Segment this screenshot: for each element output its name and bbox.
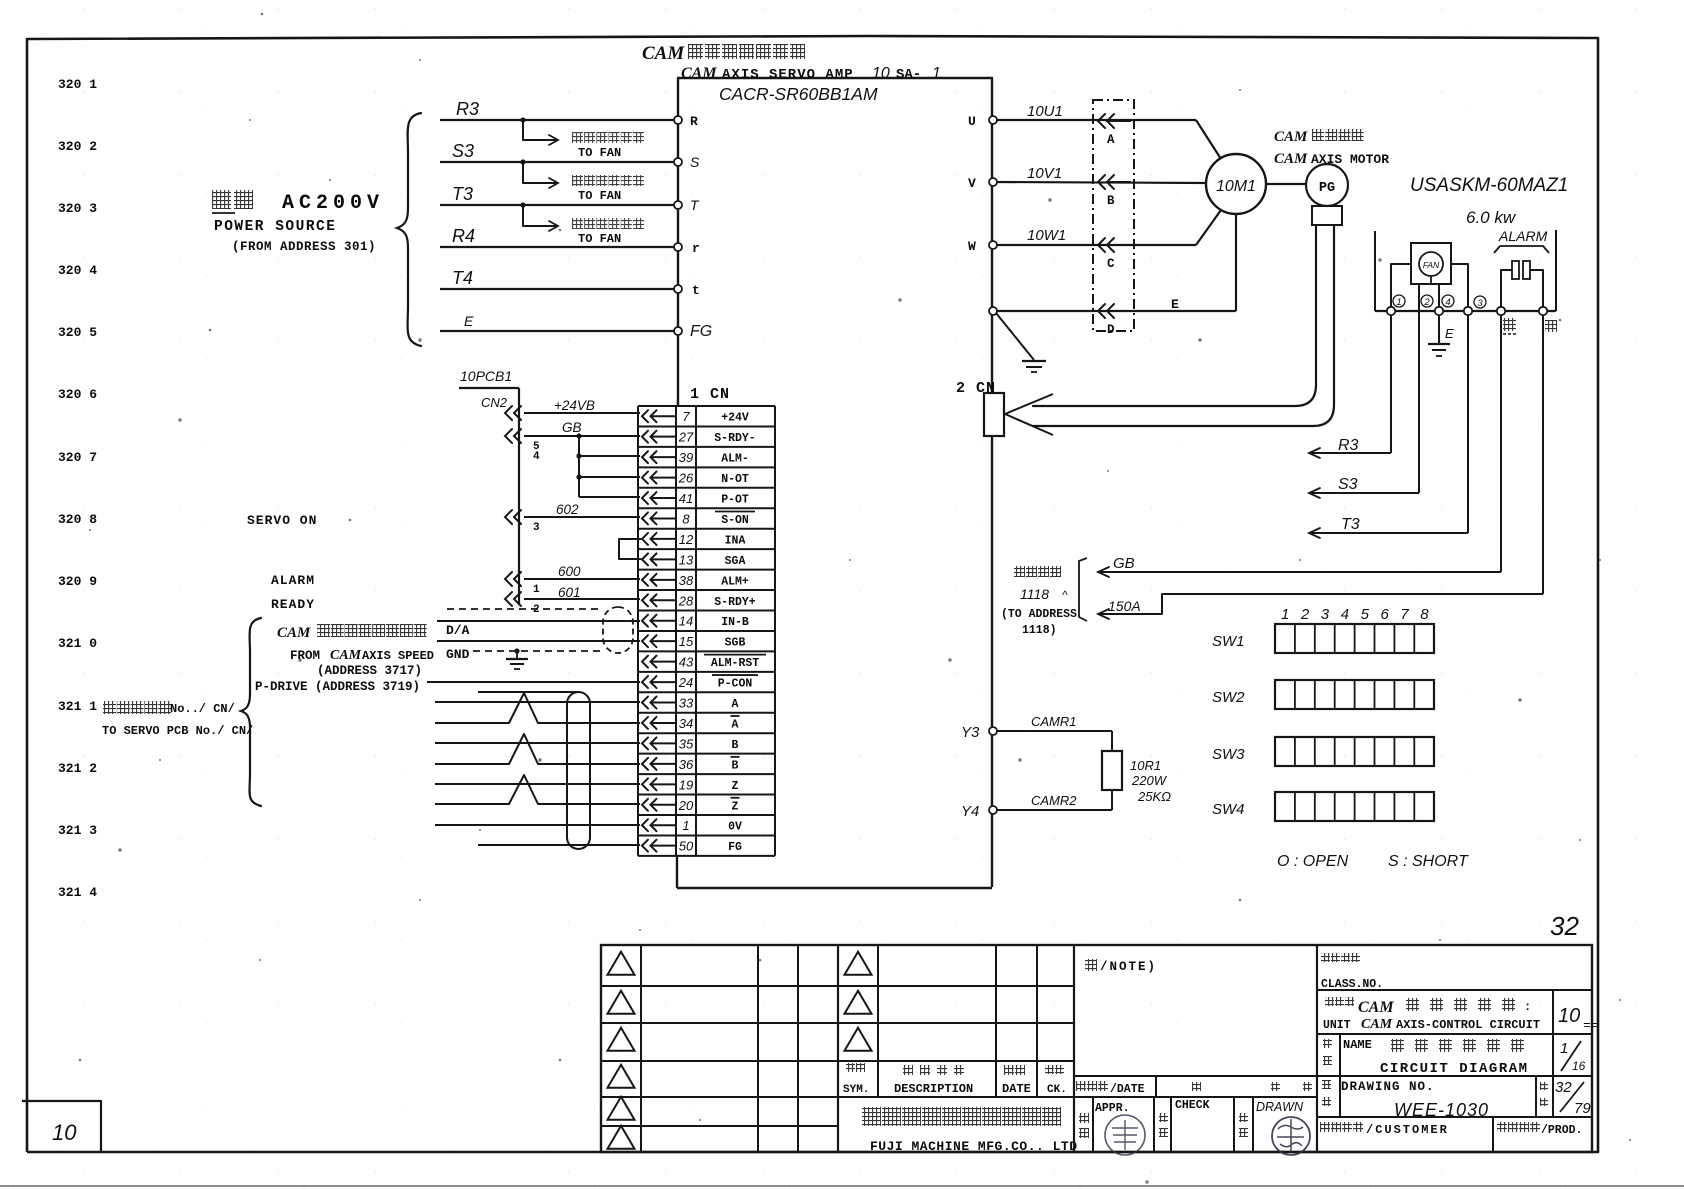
svg-text:+24V: +24V bbox=[721, 412, 749, 425]
wire SGB bbox=[437, 640, 640, 642]
svg-text:CIRCUIT DIAGRAM: CIRCUIT DIAGRAM bbox=[1380, 1061, 1529, 1077]
svg-text:DRAWING NO.: DRAWING NO. bbox=[1341, 1080, 1435, 1094]
svg-text:A: A bbox=[1107, 133, 1115, 147]
svg-text:10R1: 10R1 bbox=[1130, 758, 1161, 773]
svg-text:7: 7 bbox=[682, 409, 690, 424]
svg-text:1: 1 bbox=[1281, 606, 1289, 623]
svg-text:E: E bbox=[1445, 326, 1454, 341]
svg-text:25KΩ: 25KΩ bbox=[1137, 789, 1171, 804]
svg-text:Z: Z bbox=[732, 780, 739, 793]
svg-text:GB: GB bbox=[1113, 555, 1135, 572]
svg-text:/PROD.: /PROD. bbox=[1541, 1124, 1582, 1137]
wire shield dashed bbox=[447, 608, 600, 610]
1CN pin 50 FG bbox=[642, 840, 648, 852]
svg-text:6: 6 bbox=[1381, 606, 1390, 623]
svg-text:13: 13 bbox=[679, 552, 694, 567]
1CN pin 12 INA bbox=[642, 533, 648, 545]
svg-text:10: 10 bbox=[52, 1120, 77, 1145]
svg-text:34: 34 bbox=[679, 716, 693, 731]
svg-text:CK.: CK. bbox=[1047, 1084, 1067, 1096]
svg-text:CAM: CAM bbox=[681, 65, 717, 82]
svg-text:35: 35 bbox=[679, 736, 694, 751]
alarm contact bbox=[1501, 270, 1512, 307]
wire FG bbox=[478, 844, 640, 846]
svg-text:Y3: Y3 bbox=[961, 724, 980, 741]
bracket address 1118 bbox=[1079, 558, 1087, 621]
wire R4 to servo amp bbox=[440, 246, 676, 248]
junction dot bbox=[520, 202, 525, 207]
1CN pin 8 S-ON bbox=[642, 512, 648, 524]
svg-text:320 8: 320 8 bbox=[58, 512, 97, 527]
terminal FG bbox=[674, 327, 682, 335]
svg-text:10U1: 10U1 bbox=[1027, 103, 1063, 120]
svg-text:10PCB1: 10PCB1 bbox=[460, 368, 512, 384]
terminal circle bbox=[1435, 307, 1443, 315]
svg-text:S3: S3 bbox=[1338, 476, 1358, 493]
motor 10M1 bbox=[1206, 154, 1266, 214]
svg-text:43: 43 bbox=[679, 655, 694, 670]
label to address 1118 (japanese) bbox=[1014, 566, 1025, 577]
svg-text:2: 2 bbox=[1300, 606, 1310, 623]
terminal number 4 bbox=[1442, 295, 1454, 307]
wire E to servo amp bbox=[440, 330, 676, 332]
svg-text:S: S bbox=[690, 154, 700, 170]
svg-text:26: 26 bbox=[678, 471, 694, 486]
svg-text:10: 10 bbox=[1558, 1005, 1580, 1027]
svg-text:ALM-RST: ALM-RST bbox=[711, 657, 759, 670]
svg-text:4: 4 bbox=[1341, 606, 1349, 623]
svg-text:TO SERVO PCB No./ CN/: TO SERVO PCB No./ CN/ bbox=[102, 724, 253, 738]
svg-text:SW4: SW4 bbox=[1212, 801, 1245, 818]
wire fan left to terminal 1 bbox=[1391, 264, 1411, 307]
svg-text:320 7: 320 7 bbox=[58, 450, 97, 465]
svg-text:1: 1 bbox=[1560, 1040, 1568, 1057]
1CN pin 7 +24V bbox=[642, 410, 648, 422]
svg-text:28: 28 bbox=[678, 593, 694, 608]
wire S3 to servo amp bbox=[440, 161, 676, 163]
wire 150A return bbox=[1542, 315, 1544, 594]
svg-text:5: 5 bbox=[1361, 606, 1370, 623]
svg-text:INA: INA bbox=[725, 534, 746, 547]
svg-text:t: t bbox=[692, 283, 700, 298]
svg-text:321 0: 321 0 bbox=[58, 636, 97, 651]
svg-text:E: E bbox=[1171, 297, 1179, 312]
drawing no row bbox=[1317, 1116, 1592, 1118]
svg-text:CAM: CAM bbox=[642, 43, 685, 64]
wire U to motor bbox=[997, 119, 1196, 121]
wire fan circle to box bottom bbox=[1430, 276, 1432, 284]
svg-text:32: 32 bbox=[1555, 1079, 1572, 1096]
connector arrow phase D bbox=[1098, 304, 1105, 318]
revision triangle bbox=[845, 1028, 872, 1051]
svg-text:SA-: SA- bbox=[896, 67, 921, 83]
revision table right bbox=[877, 945, 879, 1097]
1CN pin 38 ALM+ bbox=[642, 574, 648, 586]
1CN pin 39 ALM- bbox=[642, 451, 648, 463]
revision triangle bbox=[608, 1097, 635, 1120]
1CN pin 34 A bbox=[642, 717, 648, 729]
svg-text:320 6: 320 6 bbox=[58, 387, 97, 402]
svg-text:320 2: 320 2 bbox=[58, 139, 97, 154]
terminal Y3 bbox=[989, 727, 997, 735]
jumper INA-SGA bbox=[619, 539, 641, 559]
svg-text:DESCRIPTION: DESCRIPTION bbox=[894, 1082, 973, 1096]
svg-text:24: 24 bbox=[678, 675, 693, 690]
svg-text:1: 1 bbox=[682, 818, 689, 833]
svg-text:R: R bbox=[690, 114, 698, 129]
1CN pin 36 B bbox=[642, 758, 648, 770]
1CN pin 15 SGB bbox=[642, 635, 648, 647]
svg-text:AXIS SERVO AMP: AXIS SERVO AMP bbox=[722, 67, 854, 83]
svg-text:DATE: DATE bbox=[1002, 1082, 1031, 1096]
brace servo pcb bbox=[241, 618, 261, 806]
svg-text:321 1: 321 1 bbox=[58, 699, 97, 714]
label power source AC200V bbox=[212, 190, 231, 209]
svg-text:79: 79 bbox=[1574, 1100, 1591, 1117]
svg-text:R3: R3 bbox=[456, 99, 479, 119]
svg-text:USASKM-60MAZ1: USASKM-60MAZ1 bbox=[1410, 175, 1568, 196]
svg-text:1: 1 bbox=[1396, 297, 1401, 308]
wire IN-B bbox=[437, 620, 640, 622]
wire R3 to servo amp bbox=[440, 119, 676, 121]
wire Z bbox=[435, 783, 640, 785]
svg-text:GND: GND bbox=[446, 647, 470, 662]
revision triangle bbox=[608, 1126, 635, 1149]
svg-text:CAM: CAM bbox=[277, 625, 311, 641]
1CN pin 20 Z bbox=[642, 799, 648, 811]
revision header CK bbox=[1045, 1065, 1054, 1074]
svg-text:320 4: 320 4 bbox=[58, 263, 97, 278]
stamp CHECK bbox=[1159, 1113, 1168, 1122]
1CN pin 41 P-OT bbox=[642, 492, 648, 504]
svg-text:S-RDY+: S-RDY+ bbox=[714, 596, 756, 609]
svg-text:27: 27 bbox=[678, 430, 694, 445]
wire +24VB CN2 to 1CN bbox=[524, 412, 640, 414]
revision header DESCRIPTION bbox=[903, 1065, 913, 1075]
svg-text:CAM: CAM bbox=[1274, 129, 1308, 145]
wire B-bar twisted bbox=[435, 734, 640, 764]
svg-text:2: 2 bbox=[1423, 297, 1430, 308]
svg-text:CAM: CAM bbox=[1358, 999, 1394, 1016]
1CN pin 14 IN-B bbox=[642, 615, 648, 627]
wire 602 CN2 to 1CN bbox=[524, 516, 640, 518]
svg-text:320 5: 320 5 bbox=[58, 325, 97, 340]
svg-text:UNIT: UNIT bbox=[1323, 1019, 1351, 1032]
svg-text:N-OT: N-OT bbox=[721, 473, 749, 486]
revision triangle bbox=[608, 1028, 635, 1051]
sheet 1/16 bbox=[1561, 1041, 1581, 1071]
ground symbol servo amp bbox=[996, 313, 1034, 360]
label fan motor (katakana) bbox=[572, 175, 583, 186]
label black wire (kanji) bbox=[1503, 318, 1516, 331]
svg-text:FAN: FAN bbox=[1423, 260, 1440, 270]
revision table left bbox=[640, 945, 642, 1152]
fan box bbox=[1411, 243, 1451, 284]
label fan motor (katakana) bbox=[572, 132, 583, 143]
PG base bbox=[1312, 206, 1342, 225]
svg-text:R3: R3 bbox=[1338, 437, 1359, 454]
svg-text:0V: 0V bbox=[728, 821, 742, 834]
svg-text:^: ^ bbox=[1062, 588, 1068, 602]
wire CAMR1 bbox=[997, 730, 1112, 732]
svg-text:R4: R4 bbox=[452, 226, 475, 246]
branch arrow to fan bbox=[523, 163, 556, 183]
stamp APPR bbox=[1079, 1113, 1089, 1123]
svg-text:AC200V: AC200V bbox=[282, 192, 384, 215]
svg-text:SGA: SGA bbox=[725, 555, 746, 568]
svg-text:1118: 1118 bbox=[1020, 586, 1049, 602]
title block outline bbox=[601, 945, 1592, 1152]
note box bbox=[1085, 959, 1097, 971]
svg-text:SW3: SW3 bbox=[1212, 746, 1245, 763]
terminal Y4 bbox=[989, 806, 997, 814]
svg-text:14: 14 bbox=[679, 614, 693, 629]
terminal r bbox=[674, 243, 682, 251]
connector arrow phase C bbox=[1098, 238, 1105, 252]
svg-text:CAM: CAM bbox=[330, 648, 362, 663]
svg-text:/NOTE): /NOTE) bbox=[1100, 960, 1157, 974]
wire fan right to terminal 3 bbox=[1451, 264, 1468, 307]
svg-text:7: 7 bbox=[1400, 606, 1409, 623]
svg-text:S3: S3 bbox=[452, 141, 474, 161]
svg-text:1: 1 bbox=[533, 584, 540, 596]
svg-text:S-ON: S-ON bbox=[721, 514, 749, 527]
1CN pin 33 A bbox=[642, 697, 648, 709]
svg-text:15: 15 bbox=[679, 634, 694, 649]
company name Fuji Machine (japanese) bbox=[862, 1107, 881, 1126]
svg-text:8: 8 bbox=[1420, 606, 1429, 623]
junction dot bbox=[520, 117, 525, 122]
svg-text:B: B bbox=[732, 739, 739, 752]
branch arrow to fan bbox=[523, 120, 556, 140]
name row bbox=[1317, 1075, 1592, 1077]
revision triangle bbox=[845, 991, 872, 1014]
wire terminal 4 to ground E bbox=[1438, 284, 1440, 344]
shield oval D/A pair bbox=[603, 607, 633, 653]
ground symbol E motor bbox=[1428, 343, 1450, 345]
svg-text:B: B bbox=[1107, 194, 1115, 208]
1CN pin 27 S-RDY- bbox=[642, 431, 648, 443]
revision triangle bbox=[845, 952, 872, 975]
svg-text:ALARM: ALARM bbox=[1498, 228, 1548, 244]
customer row bbox=[1492, 1117, 1494, 1152]
svg-text:321 2: 321 2 bbox=[58, 761, 97, 776]
svg-text:3: 3 bbox=[533, 522, 540, 534]
svg-text:(TO ADDRESS: (TO ADDRESS bbox=[1001, 608, 1077, 621]
svg-text:IN-B: IN-B bbox=[721, 616, 749, 629]
svg-text:12: 12 bbox=[679, 532, 694, 547]
svg-text:TO FAN: TO FAN bbox=[578, 146, 621, 160]
revision triangle bbox=[608, 1065, 635, 1088]
1CN pin 43 ALM-RST bbox=[642, 656, 648, 668]
wire 0V bbox=[435, 824, 640, 826]
1CN pin 26 N-OT bbox=[642, 472, 648, 484]
svg-text:No../ CN/: No../ CN/ bbox=[170, 702, 235, 716]
wire GB CN2 to 1CN bbox=[524, 435, 640, 437]
svg-text:T4: T4 bbox=[452, 268, 473, 288]
label fan motor (katakana) bbox=[572, 218, 583, 229]
svg-text:AXIS-CONTROL CIRCUIT: AXIS-CONTROL CIRCUIT bbox=[1396, 1018, 1540, 1032]
svg-text:D: D bbox=[1107, 323, 1115, 337]
wire fan center terminal 2 bbox=[1418, 284, 1420, 489]
svg-text:CLASS.NO.: CLASS.NO. bbox=[1321, 978, 1383, 991]
class no box bbox=[1316, 945, 1318, 1152]
svg-text:321 4: 321 4 bbox=[58, 885, 97, 900]
svg-text:S : SHORT: S : SHORT bbox=[1388, 853, 1469, 870]
svg-text:CAMR2: CAMR2 bbox=[1031, 793, 1077, 808]
svg-text:READY: READY bbox=[271, 597, 315, 612]
svg-text:38: 38 bbox=[679, 573, 694, 588]
svg-text:1 CN: 1 CN bbox=[690, 386, 730, 403]
1CN pin 24 P-CON bbox=[642, 676, 648, 688]
1CN table grid bbox=[638, 405, 775, 407]
date row bbox=[1074, 1075, 1317, 1077]
servo amp box 10SA-1 bbox=[678, 78, 992, 887]
svg-text:2: 2 bbox=[533, 604, 540, 616]
svg-text:33: 33 bbox=[679, 696, 694, 711]
svg-text:PG: PG bbox=[1319, 181, 1335, 196]
svg-text:T3: T3 bbox=[1341, 516, 1360, 533]
wire GB return bbox=[1500, 315, 1502, 572]
svg-text:U: U bbox=[968, 114, 976, 129]
svg-text:P-CON: P-CON bbox=[718, 678, 753, 691]
1CN pin 1 0V bbox=[642, 819, 648, 831]
svg-text:19: 19 bbox=[679, 777, 693, 792]
svg-text:3: 3 bbox=[1321, 606, 1330, 623]
svg-text:CAM: CAM bbox=[1274, 151, 1308, 167]
svg-text:1: 1 bbox=[932, 65, 941, 82]
1CN pin 35 B bbox=[642, 737, 648, 749]
svg-text:TO FAN: TO FAN bbox=[578, 189, 621, 203]
svg-text:FG: FG bbox=[690, 323, 712, 340]
terminal circle bbox=[1497, 307, 1505, 315]
terminal E (motor ground) bbox=[989, 307, 997, 315]
stamp row dividers bbox=[1092, 1097, 1094, 1152]
svg-text:32: 32 bbox=[1550, 911, 1579, 941]
shield loop encoder cable bbox=[567, 692, 590, 849]
svg-text:36: 36 bbox=[679, 757, 694, 772]
wire A bbox=[435, 701, 640, 703]
dashed connector box A-D bbox=[1093, 100, 1134, 331]
revision triangle bbox=[608, 952, 635, 975]
svg-text:16: 16 bbox=[1572, 1059, 1586, 1073]
svg-text:DRAWN: DRAWN bbox=[1256, 1100, 1304, 1114]
wire E to motor bbox=[997, 310, 1236, 312]
svg-text:20: 20 bbox=[678, 798, 694, 813]
wire GND dashed bbox=[473, 650, 605, 652]
svg-text:10V1: 10V1 bbox=[1027, 165, 1062, 182]
branch arrow to fan bbox=[523, 206, 556, 226]
unit row bbox=[1317, 1033, 1592, 1035]
svg-text:A: A bbox=[732, 698, 739, 711]
terminal W bbox=[989, 241, 997, 249]
svg-text:B: B bbox=[732, 759, 739, 772]
svg-text:FUJI MACHINE MFG.CO.. LTD: FUJI MACHINE MFG.CO.. LTD bbox=[870, 1139, 1078, 1154]
terminal R bbox=[674, 116, 682, 124]
brace power source bbox=[397, 113, 421, 346]
wire Z-bar twisted bbox=[435, 775, 640, 804]
scan artifact line bbox=[0, 1185, 1684, 1187]
svg-text:SW1: SW1 bbox=[1212, 633, 1245, 650]
svg-text:TO FAN: TO FAN bbox=[578, 232, 621, 246]
label servo pcb (japanese) bbox=[103, 701, 116, 714]
svg-text:E: E bbox=[464, 313, 474, 329]
svg-text:6.0 kw: 6.0 kw bbox=[1466, 208, 1517, 227]
svg-text:Z: Z bbox=[732, 800, 739, 813]
svg-text:S-RDY-: S-RDY- bbox=[714, 432, 755, 445]
wire T4 to servo amp bbox=[440, 288, 676, 290]
svg-text:3: 3 bbox=[1477, 298, 1483, 309]
junction dot bbox=[520, 159, 525, 164]
encoder cable to 2CN bbox=[1033, 225, 1316, 406]
terminal t bbox=[674, 285, 682, 293]
svg-text:/DATE: /DATE bbox=[1110, 1083, 1145, 1096]
svg-text:P-OT: P-OT bbox=[721, 494, 749, 507]
wire 600 CN2 to 1CN bbox=[524, 578, 640, 580]
svg-text:NAME: NAME bbox=[1343, 1038, 1372, 1052]
svg-text:10M1: 10M1 bbox=[1216, 178, 1256, 195]
wire T3 return bbox=[1467, 315, 1469, 533]
svg-text:C: C bbox=[1107, 257, 1115, 271]
resistor 10R1 220W 25Kohm bbox=[1102, 751, 1122, 790]
sheet number box 10 bbox=[22, 1101, 101, 1152]
svg-text:O : OPEN: O : OPEN bbox=[1277, 853, 1349, 870]
svg-text:4: 4 bbox=[1445, 297, 1450, 308]
svg-text:WEE-1030: WEE-1030 bbox=[1394, 1100, 1489, 1120]
revision header SYM bbox=[846, 1063, 855, 1072]
svg-text:320 1: 320 1 bbox=[58, 77, 97, 92]
svg-text:FROM: FROM bbox=[290, 649, 320, 663]
1CN pin 28 S-RDY+ bbox=[642, 594, 648, 606]
connector arrow phase A bbox=[1098, 114, 1105, 128]
svg-text:220W: 220W bbox=[1131, 773, 1168, 788]
svg-text:POWER SOURCE: POWER SOURCE bbox=[214, 219, 336, 235]
revision header DATE bbox=[1004, 1065, 1014, 1075]
svg-text:(ADDRESS 3717): (ADDRESS 3717) bbox=[317, 664, 422, 678]
svg-text:ALM-: ALM- bbox=[721, 453, 749, 466]
wire R3 return bbox=[1390, 315, 1392, 453]
svg-text:CN2: CN2 bbox=[481, 395, 508, 410]
svg-text:A: A bbox=[732, 718, 739, 731]
svg-text:r: r bbox=[692, 241, 700, 256]
svg-text:320 9: 320 9 bbox=[58, 574, 97, 589]
1CN pin 19 Z bbox=[642, 778, 648, 790]
svg-text:39: 39 bbox=[679, 450, 693, 465]
svg-text:W: W bbox=[968, 239, 976, 254]
1CN pin 13 SGA bbox=[642, 553, 648, 565]
terminal S bbox=[674, 158, 682, 166]
svg-text:4: 4 bbox=[533, 451, 540, 463]
terminal U bbox=[989, 116, 997, 124]
wire W to motor bbox=[997, 244, 1196, 246]
svg-text:SYM.: SYM. bbox=[843, 1084, 869, 1096]
svg-text:SGB: SGB bbox=[725, 637, 746, 650]
wire P-DRIVE to P-CON bbox=[427, 681, 640, 683]
svg-text:AXIS SPEED: AXIS SPEED bbox=[362, 649, 434, 663]
svg-text:+24VB: +24VB bbox=[554, 398, 595, 413]
svg-text:CAM: CAM bbox=[1361, 1017, 1393, 1032]
svg-text:Y4: Y4 bbox=[961, 803, 979, 820]
ground symbol (GND) bbox=[516, 651, 518, 659]
revision triangle bbox=[608, 991, 635, 1014]
svg-text:GB: GB bbox=[562, 420, 582, 435]
wire S3 return bbox=[1418, 489, 1420, 493]
terminal T bbox=[674, 201, 682, 209]
label white wire (kanji) bbox=[1545, 320, 1557, 332]
terminal number 1 bbox=[1393, 295, 1405, 307]
svg-text:320 3: 320 3 bbox=[58, 201, 97, 216]
svg-text:10W1: 10W1 bbox=[1027, 227, 1066, 244]
